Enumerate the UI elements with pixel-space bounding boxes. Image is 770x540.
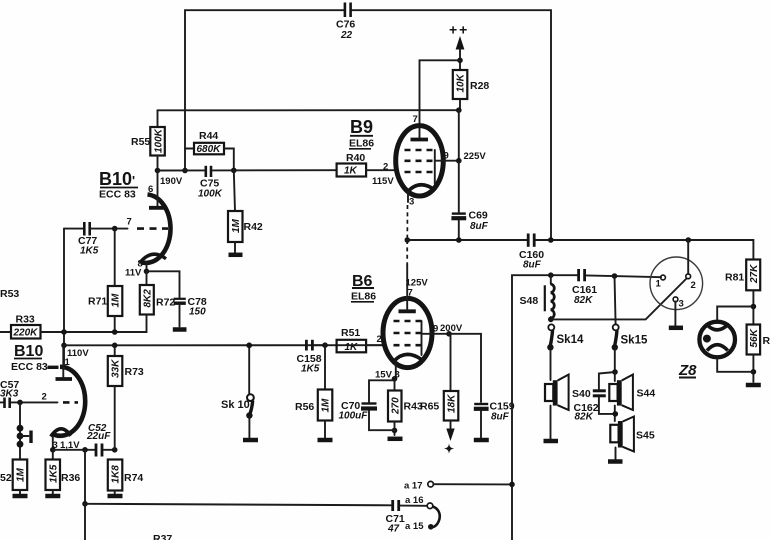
resistor R44 680K [185,130,237,173]
resistor R43 270 [388,379,423,435]
pin a16 with hook to a15 [405,495,440,532]
svg-text:Z8: Z8 [678,362,697,379]
svg-text:R40: R40 [346,152,365,164]
tube B10 triode [11,343,85,453]
svg-text:270: 270 [391,397,402,415]
svg-text:R8: R8 [763,335,770,347]
capacitor C52 22uF [86,423,117,457]
grid [115,228,128,230]
speaker S40 [545,375,591,440]
cathode [51,429,71,437]
wire 190V line to C75 and R40 [158,169,337,171]
svg-text:1K: 1K [344,166,358,177]
envelope [383,298,432,367]
capacitor C57 input [0,379,23,408]
svg-text:200V: 200V [440,323,463,334]
svg-text:1M: 1M [231,218,242,233]
svg-text:Sk14: Sk14 [557,334,584,346]
svg-text:100K: 100K [198,189,223,200]
svg-text:2: 2 [383,162,388,173]
svg-text:R56: R56 [295,401,314,413]
capacitor C70 100uF [339,380,395,430]
svg-text:7: 7 [127,217,132,228]
cathode [408,185,436,192]
svg-text:R44: R44 [199,130,218,142]
svg-text:R65: R65 [420,401,439,413]
wire cathode node y450 [53,449,95,451]
ground under C159 [474,438,489,443]
svg-text:1K5: 1K5 [80,246,99,257]
svg-text:8uF: 8uF [523,260,542,271]
capacitor C76 [336,3,355,42]
svg-text:8uF: 8uF [491,412,510,423]
ground under R36 [45,494,60,499]
svg-text:R33: R33 [16,314,35,326]
capacitor C158 [246,340,327,375]
svg-text:18K: 18K [447,394,458,413]
svg-text:a 16: a 16 [405,495,424,506]
svg-text:100K: 100K [154,128,165,153]
capacitor C161 82K [572,269,597,306]
svg-text:R36: R36 [61,472,80,484]
svg-text:27K: 27K [749,264,760,284]
switch Sk14 [547,324,584,380]
wire to bottom rail x85 [82,447,391,540]
svg-text:S45: S45 [636,430,655,442]
svg-text:1: 1 [656,279,662,290]
resistor R40 1K [337,152,396,187]
speaker S44 [609,372,655,421]
svg-text:1M: 1M [111,293,122,308]
resistor R36 1K5 [46,450,81,494]
tube B9 pentode [349,114,486,240]
tube B6 pentode [351,240,463,382]
svg-text:Sk15: Sk15 [621,335,648,347]
svg-text:22: 22 [340,30,353,41]
capacitor C69 8uF [451,161,488,240]
resistor R65 18K [420,334,458,456]
wire output line y240 [405,237,754,259]
svg-text:R55: R55 [131,136,150,148]
svg-text:82K: 82K [574,295,593,306]
ground under R56 [318,438,333,443]
grid [20,401,58,403]
resistor R28 10K [453,70,490,110]
svg-text:B9: B9 [350,117,373,137]
svg-text:11V: 11V [125,268,142,279]
svg-text:B10: B10 [14,343,43,360]
svg-text:R71: R71 [88,296,107,308]
resistor R80 56K [747,325,770,383]
switch Sk10 [221,343,254,438]
wire screen supply rail y110 [158,107,462,160]
capacitor C75 [198,166,223,200]
plate [149,206,167,210]
speaker S45 [610,417,655,460]
cathode [394,354,422,361]
svg-text:220K: 220K [13,328,39,339]
plate [56,377,73,381]
resistor R73 33K [108,343,144,450]
svg-text:1K8: 1K8 [111,465,122,484]
svg-text:1M: 1M [321,398,332,413]
ground under C78 [173,327,187,332]
grid bias network with cap tap [17,402,31,459]
svg-text:EL86: EL86 [351,291,376,303]
resistor R33 220K [0,314,64,339]
svg-text:✦: ✦ [444,442,454,456]
resistor R52 1M [0,460,27,495]
svg-text:7: 7 [408,288,413,299]
transformer S48 [520,275,555,322]
svg-text:1: 1 [65,357,71,368]
capacitor C159 8uF [474,401,515,438]
svg-text:R53: R53 [0,288,19,300]
svg-text:52: 52 [0,472,12,484]
svg-text:ECC 83: ECC 83 [99,189,136,201]
wire B9 plate to supply [420,60,461,138]
svg-text:B10': B10' [99,169,135,189]
svg-text:9: 9 [433,324,438,335]
wire S48 to rotary wiper [551,279,687,320]
svg-text:R72: R72 [156,297,175,309]
envelope [53,367,85,436]
svg-text:R74: R74 [124,472,143,484]
ground under R74 [108,494,123,499]
svg-text:R42: R42 [244,221,263,233]
svg-text:S48: S48 [520,295,539,307]
grids [394,320,422,323]
svg-text:S44: S44 [637,388,656,400]
tube B10' triode [99,169,171,279]
ground under Sk10 [243,438,258,443]
svg-text:110V: 110V [67,348,89,359]
svg-text:a 17: a 17 [404,481,423,492]
node plate B10 / wire y332 [61,329,117,368]
capacitor C160 8uF [519,234,544,271]
svg-text:++: ++ [449,22,469,38]
ground under R43 [388,437,403,442]
resistor R74 1K8 [108,460,144,495]
screen tap [422,333,450,335]
screen tap [435,160,459,162]
svg-text:1K: 1K [345,342,359,353]
wire signal line y345 [64,344,384,346]
svg-text:R73: R73 [125,366,144,378]
svg-text:190V: 190V [160,176,183,187]
pin a17 [404,481,515,492]
plate [399,309,416,313]
svg-text:115V: 115V [372,176,394,187]
rotary switch Z8 contacts [650,240,703,326]
svg-text:3: 3 [679,299,684,310]
resistor R51 1K [337,327,384,353]
wire 200V to C159 [446,331,481,402]
wire feedback rail top [185,10,551,240]
resistor R71 1M [88,229,122,332]
svg-text:47: 47 [387,524,400,535]
wire R81 node to Z8 connector [717,307,753,322]
plate [411,138,429,142]
svg-text:R81: R81 [725,272,744,284]
wire y275 and vertical x512 [512,272,661,540]
capacitor C78 [147,271,207,326]
svg-text:15V: 15V [375,370,393,381]
svg-text:150: 150 [189,307,206,318]
ground under R80 [746,383,761,388]
svg-text:C76: C76 [336,19,355,31]
capacitor C77 [64,222,117,257]
svg-text:1M: 1M [16,467,27,482]
svg-text:S40: S40 [572,388,591,400]
svg-text:R51: R51 [341,327,360,339]
envelope [141,195,171,263]
svg-text:2: 2 [691,280,696,291]
ground under S40 [544,439,559,444]
supply ++ arrow [449,22,469,71]
svg-text:1K5: 1K5 [301,364,320,375]
svg-text:10K: 10K [456,73,467,92]
capacitor C162 82K [574,372,616,423]
svg-text:6: 6 [148,184,153,195]
resistor R42 1M [228,170,263,252]
ground under R42 [229,253,243,258]
connector Z8 DIN [678,322,753,379]
svg-text:8K2: 8K2 [143,289,154,308]
svg-text:C69: C69 [469,210,488,222]
svg-text:Sk 10: Sk 10 [221,399,250,411]
svg-text:3: 3 [409,197,414,208]
svg-text:56K: 56K [749,328,760,347]
svg-text:125V: 125V [406,278,429,289]
svg-text:1K5: 1K5 [49,464,60,483]
svg-text:9: 9 [444,151,449,162]
ground under R52 [13,494,28,499]
envelope [396,126,444,196]
capacitor C71 47 [386,500,428,535]
node 190V [155,168,188,187]
svg-text:7: 7 [413,114,418,125]
svg-text:680K: 680K [197,144,222,155]
svg-text:225V: 225V [464,151,487,162]
svg-text:82K: 82K [575,412,594,423]
svg-text:a 15: a 15 [405,521,424,532]
wire C77 to plate node of B10 [63,229,65,332]
svg-text:22uF: 22uF [86,431,111,442]
svg-text:100uF: 100uF [339,411,369,422]
svg-text:R37: R37 [153,533,172,540]
resistor R56 1M [295,345,332,437]
ground under contact 3 [669,326,683,331]
svg-text:EL86: EL86 [349,138,374,150]
grids [405,149,435,152]
svg-text:R28: R28 [470,80,489,92]
svg-text:8uF: 8uF [470,221,489,232]
svg-text:ECC 83: ECC 83 [11,361,48,373]
switch Sk15 [612,276,648,375]
resistor R81 27K [725,260,760,325]
svg-text:33K: 33K [111,359,122,378]
svg-text:2: 2 [42,392,47,403]
resistor R55 100K [131,110,165,170]
resistor R72 8K2 [64,271,175,332]
cathode [140,254,166,262]
ground under S45 [608,459,623,464]
